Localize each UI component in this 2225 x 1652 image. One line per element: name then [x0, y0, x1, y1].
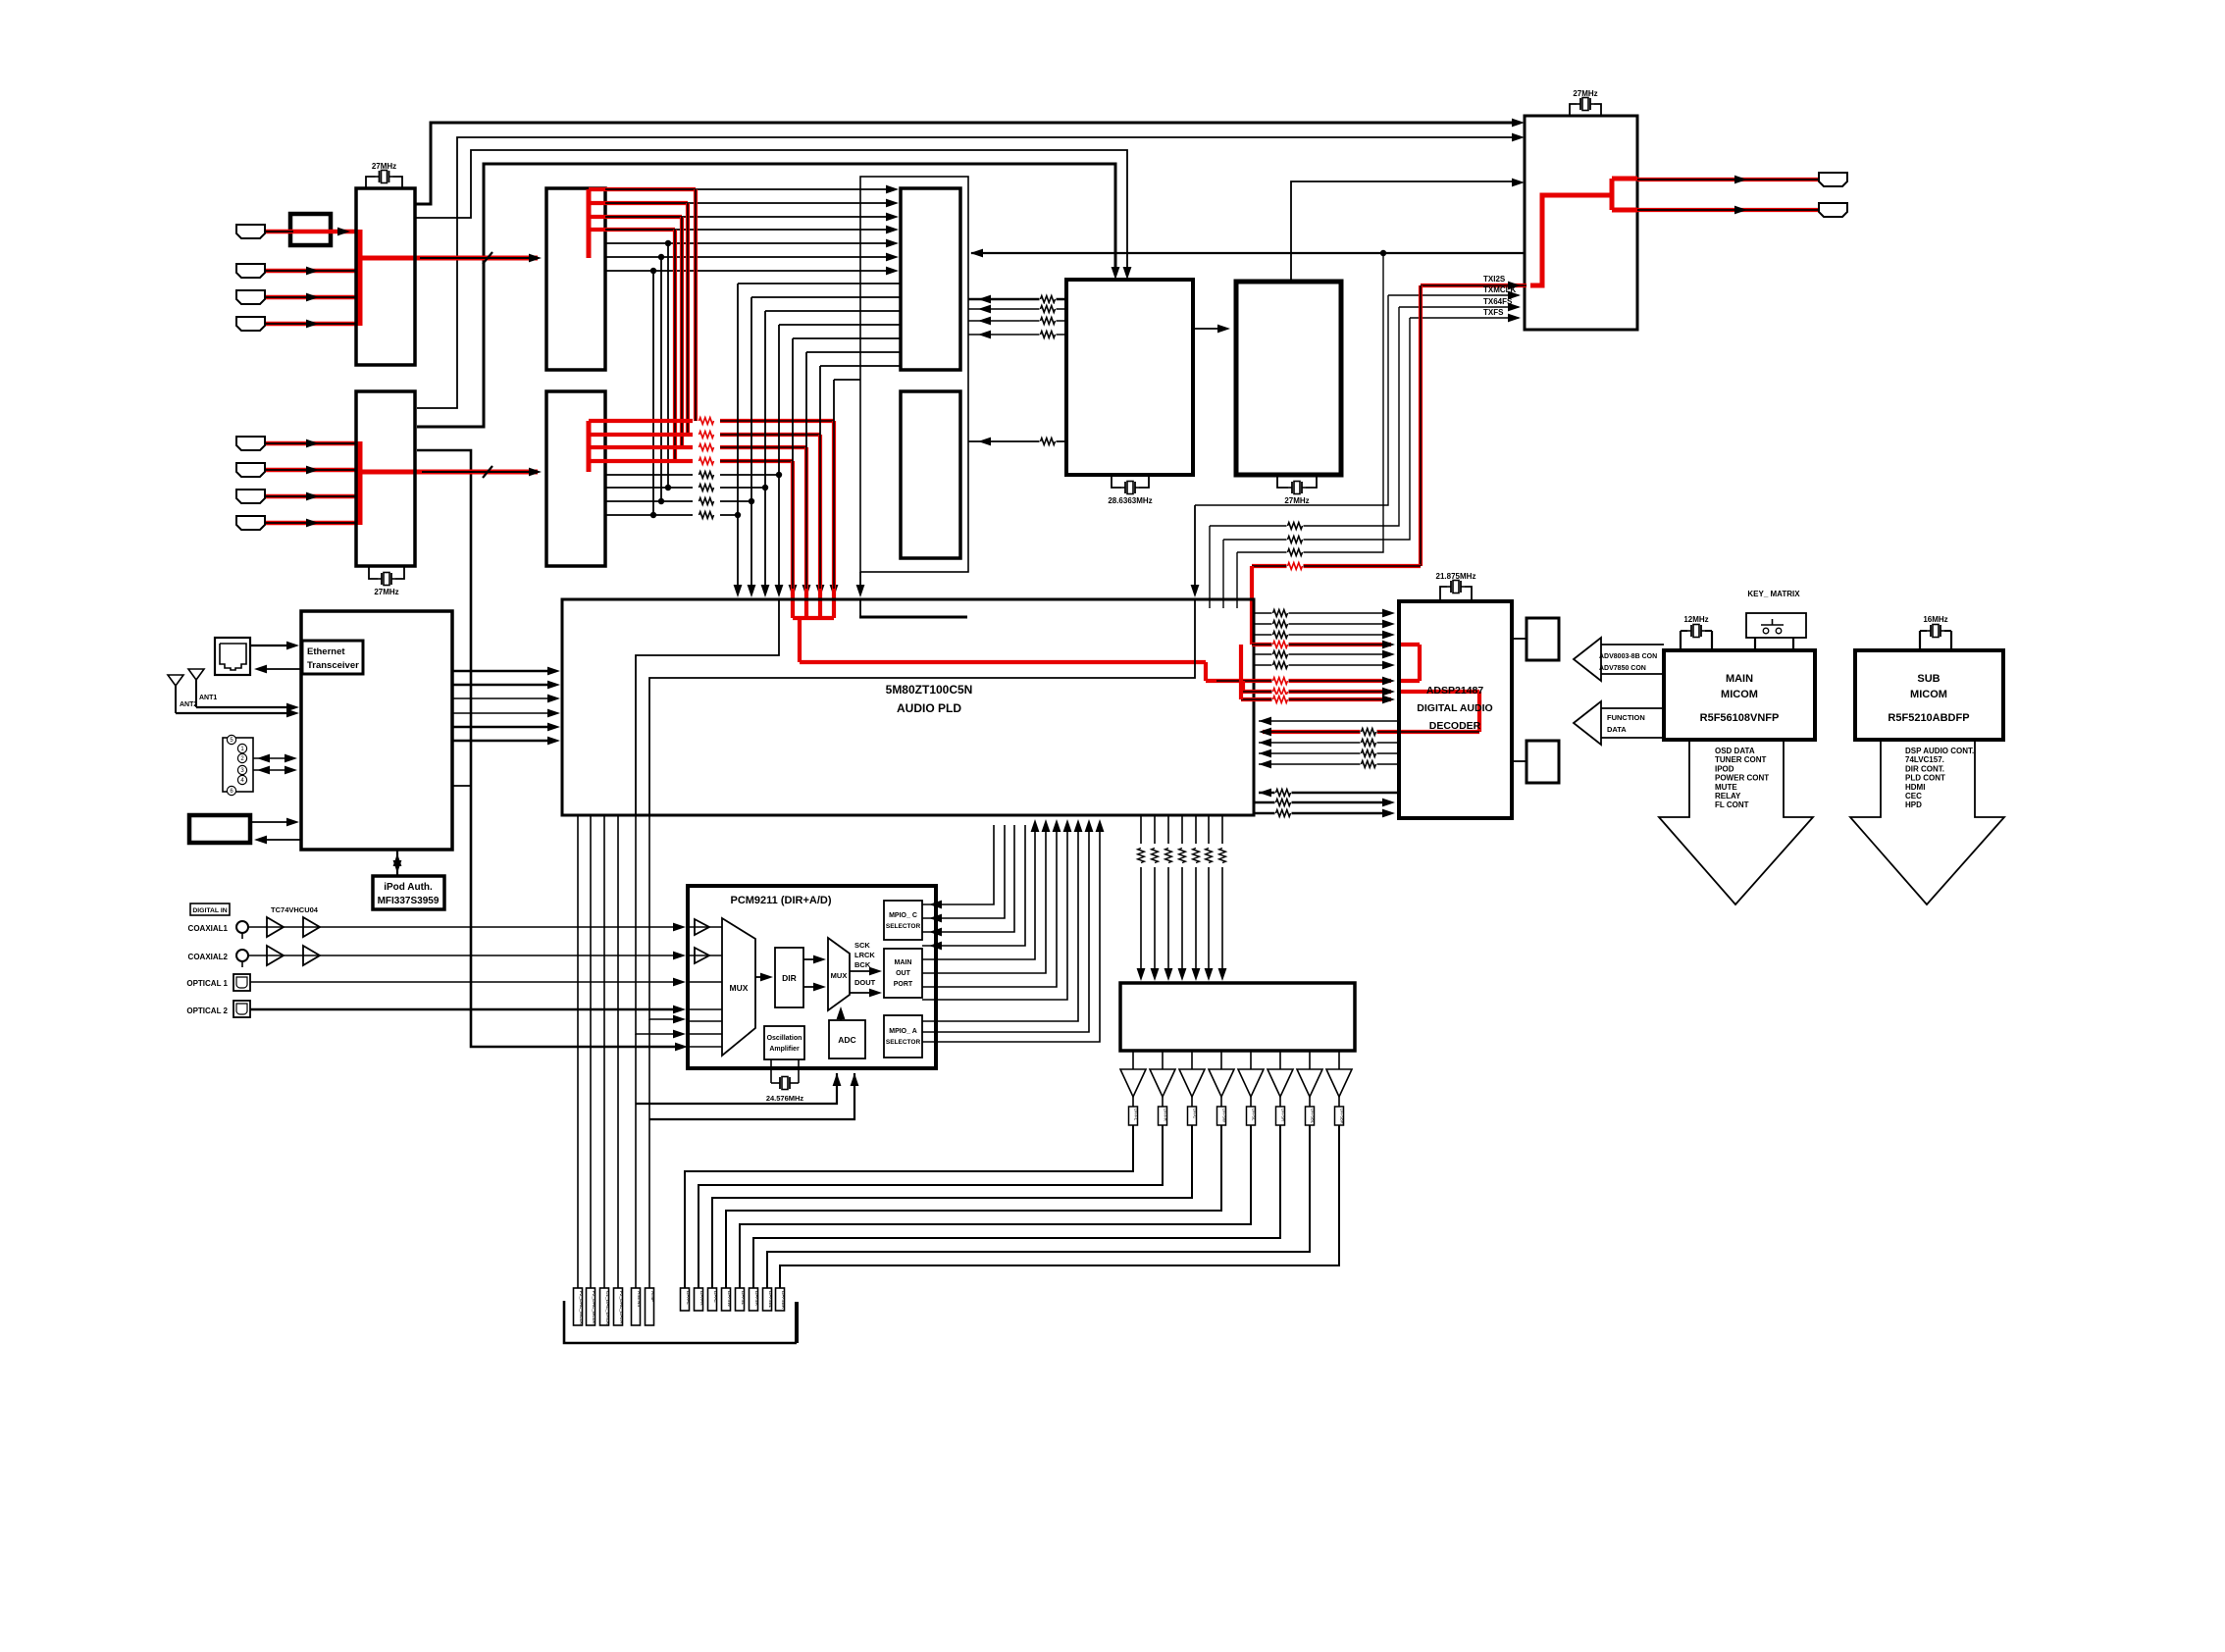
block small module bottom-left — [189, 815, 250, 843]
svg-text:MFI337S3959: MFI337S3959 — [378, 896, 440, 906]
svg-text:DA-SW: DA-SW — [726, 1291, 732, 1307]
svg-text:DA-C: DA-C — [1193, 1109, 1198, 1118]
wire PLD bottom feed to PCM9211 input (x660) — [649, 815, 682, 1019]
red input bus inside HDMI switch A — [358, 230, 363, 326]
svg-text:ADV7850 CON: ADV7850 CON — [1599, 665, 1646, 672]
arrowhead HDMI in 5 — [306, 439, 319, 448]
svg-text:28.6363MHz: 28.6363MHz — [1108, 496, 1152, 505]
wire RJ45 to network module (rx) — [257, 668, 301, 670]
connector HDMI IN 1 — [236, 225, 265, 238]
connector RJ45 — [215, 638, 250, 675]
block F — [1236, 282, 1341, 475]
wire TX64FS feeder row 536 — [1210, 307, 1399, 526]
wire DIR to MUX2 (2) — [803, 986, 822, 988]
svg-text:DA-SBR: DA-SBR — [1340, 1109, 1345, 1124]
connector OPTICAL 2 — [233, 1001, 250, 1017]
wire TX64FS into HDMI TX — [1399, 306, 1519, 308]
connector tag DA-FR — [695, 1288, 703, 1311]
buffer triangle 7 — [1297, 1069, 1322, 1097]
buffer triangle 1 — [1120, 1069, 1146, 1097]
wire G1 right to block E input 1 — [968, 298, 1066, 301]
svg-text:ANT1: ANT1 — [199, 695, 217, 701]
bus width slash on B-D red line — [483, 466, 492, 478]
buffer triangle 4 — [1209, 1069, 1234, 1097]
wire PLD to ADSP row 1 — [1255, 612, 1391, 614]
svg-text:DA-SBL: DA-SBL — [767, 1291, 773, 1309]
wire triangle 2 output to bottom connector tag — [699, 1125, 1163, 1288]
crystal 24.576MHz below oscillation amplifier — [770, 1059, 772, 1083]
connector tag ASENS — [632, 1288, 641, 1325]
svg-text:74LVC157.: 74LVC157. — [1905, 755, 1944, 764]
svg-text:DIR: DIR — [782, 973, 797, 983]
wire ADSP to PLD row 779 — [1259, 763, 1399, 765]
wire small module to network module (b) — [257, 839, 301, 841]
crystal 16MHz above SUB MICOM — [1919, 631, 1921, 650]
svg-text:DOUT: DOUT — [854, 978, 876, 987]
wire MUX2 to MAIN OUT PORT (dout) — [850, 992, 878, 994]
svg-text:DIR CONT.: DIR CONT. — [1905, 764, 1944, 773]
wire receiver C output 4 (red) to G1 and branch down — [589, 228, 675, 232]
wire HDMI input 5 to switch B (red highlighted) — [266, 441, 356, 446]
svg-text:12MHz: 12MHz — [1683, 615, 1708, 624]
arrowhead bus2 into HDMI TX — [1512, 133, 1525, 142]
arrowhead MPIO_C line 1 — [929, 901, 942, 909]
connector tag F2_DAC_DATA — [614, 1288, 623, 1325]
wire triangle 3 output to bottom connector tag — [712, 1125, 1192, 1288]
wire TXFS feeder row 550 — [1223, 318, 1410, 540]
resistor tag 2 — [1159, 1107, 1167, 1125]
svg-text:ASENS: ASENS — [636, 1291, 642, 1307]
svg-text:27MHz: 27MHz — [372, 162, 396, 171]
wire HDMI input 6 to switch B (red highlighted) — [266, 468, 356, 473]
svg-text:HPD: HPD — [1905, 800, 1922, 809]
arrowhead HDMI in 3 — [306, 293, 319, 302]
wire black row 3 from receiver D to staircase vertical — [605, 500, 693, 502]
small series box on HDMI input 1 — [290, 214, 331, 245]
wire buffer block to triangle 3 — [1191, 1051, 1193, 1069]
wire ADSP-PLD bottom row 808 — [1259, 792, 1399, 794]
svg-text:24.576MHz: 24.576MHz — [766, 1094, 804, 1103]
wire DIR to MUX2 (1) — [803, 958, 822, 960]
wire AUDIO PLD bottom to connector tag 3 — [603, 815, 605, 1288]
inner PLD bus segment below G cluster — [859, 599, 861, 617]
connector OPTICAL 1 — [233, 974, 250, 991]
resistor tag 6 — [1276, 1107, 1285, 1125]
svg-text:DA-SR: DA-SR — [1281, 1109, 1286, 1121]
wire bus4: HDMI SW B out to video decoder E top — [417, 164, 1115, 427]
wire staircase vertical 3 into PLD top — [764, 311, 766, 589]
hollow arrow FUNCTION DATA (to left) — [1574, 701, 1601, 745]
connector HDMI IN 3 — [236, 290, 265, 304]
red return row 746 into PLD — [1263, 730, 1479, 734]
wire: block B out down to PCM9211 (long vertical x=480) — [417, 450, 682, 1047]
wire black row 1 from receiver D to staircase vertical — [605, 474, 693, 476]
wire bus2: HDMI SW B out to HDMI TX — [417, 137, 1513, 408]
wire pin header to network module 2 — [253, 769, 293, 771]
resistor tag 1 — [1129, 1107, 1138, 1125]
wire bus6: long return bus from HDMI TX to receiver cluster G — [971, 252, 1525, 254]
connector tag F2_DAC_BCLK — [587, 1288, 595, 1325]
arrowhead bus4 into block E top — [1112, 267, 1120, 280]
wire receiver C output 3 (red) to G1 and branch down — [589, 215, 682, 219]
red input bus inside HDMI switch B — [358, 441, 363, 525]
block G outer (HDMI RX core) — [860, 177, 968, 572]
wire G1 right to block E input 2 — [968, 308, 1066, 310]
wire triangle 8 to resistor tag — [1338, 1097, 1340, 1107]
wire network module to AUDIO PLD 1 — [452, 670, 556, 672]
wire receiver C output 2 (red) to G1 and branch down — [589, 201, 688, 205]
box DIGITAL IN — [190, 903, 230, 915]
wire PCM9211 output 4 to AUDIO PLD bottom — [922, 825, 1025, 946]
svg-text:5M80ZT100C5N: 5M80ZT100C5N — [886, 683, 973, 697]
wire network module to AUDIO PLD 3 — [452, 697, 556, 699]
arrowhead MPIO_C line 2 — [929, 914, 942, 923]
block E video decoder — [1066, 280, 1193, 475]
wire TXMCLK into HDMI TX — [1388, 294, 1519, 296]
svg-text:ADC: ADC — [838, 1035, 855, 1045]
connector HDMI IN 6 — [236, 463, 265, 477]
block SUB MICOM — [1855, 650, 2003, 740]
wire tag column x662 down — [648, 1019, 650, 1288]
crystal 27MHz above switch A — [366, 177, 376, 188]
wire PCM9211 output 6 to AUDIO PLD bottom — [922, 825, 1046, 973]
red merge staircase below PLD top edge — [832, 589, 836, 618]
wires PCM9211 inputs to MUX1 — [688, 926, 722, 928]
svg-text:MPIO_ A: MPIO_ A — [889, 1028, 917, 1035]
wire AUDIO PLD bottom to buffer block input 3 — [1167, 815, 1169, 844]
block ADSP21487 decoder — [1399, 601, 1512, 818]
red loop row 713 — [1241, 697, 1391, 701]
wire PCM9211 output 2 to AUDIO PLD bottom — [922, 825, 1005, 918]
red loop row 705 — [1243, 690, 1391, 694]
wire AUDIO PLD bottom to buffer block input 7 — [1221, 815, 1223, 844]
svg-text:CL_DAC_LRCK: CL_DAC_LRCK — [604, 1291, 610, 1325]
buffer triangle 2 — [1150, 1069, 1175, 1097]
resistor tag 7 — [1306, 1107, 1315, 1125]
crystal 27MHz below block F — [1277, 475, 1288, 488]
wire HDMI input 3 to switch A (red highlighted) — [266, 295, 356, 300]
wire triangle 7 to resistor tag — [1309, 1097, 1311, 1107]
wire network module to iPod Auth (bidirectional) — [396, 850, 398, 876]
svg-text:Transceiver: Transceiver — [307, 660, 359, 671]
wire HDMI input 7 to switch B (red highlighted) — [266, 494, 356, 499]
component MUX2 trapezoid — [828, 938, 850, 1010]
wire receiver C output 6 to G1 with branch — [605, 256, 895, 258]
wire TXMCLK vertical feeder to PLD row — [1195, 295, 1388, 505]
svg-text:FL CONT: FL CONT — [1715, 800, 1749, 809]
wire staircase vertical 2 into PLD top — [750, 297, 752, 589]
wire ANT1 to network module — [196, 706, 295, 708]
wire network module to AUDIO PLD 5 — [452, 726, 556, 728]
wire black row 4 from receiver D to staircase vertical — [605, 514, 693, 516]
black internal PLD line from top x1218 to x662 column — [649, 599, 1195, 815]
wire triangle 5 to resistor tag — [1250, 1097, 1252, 1107]
svg-text:DECODER: DECODER — [1429, 720, 1481, 732]
wire ADSP to memory square 2 — [1512, 760, 1526, 762]
buffer triangle 6 — [1268, 1069, 1293, 1097]
wire triangle 2 to resistor tag — [1162, 1097, 1164, 1107]
bottom connector bracket — [564, 1301, 797, 1343]
block HDMI receiver C — [546, 188, 605, 370]
wire PLD to ADSP row 2 — [1255, 623, 1391, 625]
buffer triangle 5 — [1238, 1069, 1264, 1097]
antenna ANT2 — [168, 675, 183, 686]
connector HDMI IN 5 — [236, 437, 265, 450]
svg-text:DA-SBL: DA-SBL — [1311, 1109, 1316, 1124]
wire ADSP to memory square 1 — [1512, 638, 1526, 640]
arrowhead MPIO_C line 4 — [929, 942, 942, 951]
svg-text:DA-FL: DA-FL — [1134, 1109, 1139, 1121]
svg-text:MUTE: MUTE — [1715, 783, 1737, 792]
svg-text:AUDIO PLD: AUDIO PLD — [897, 701, 961, 715]
wire PLD to ADSP red row 657 (TX audio) — [1252, 643, 1391, 646]
wire MUX2 to MAIN OUT PORT (clock) — [850, 970, 878, 972]
wire network module to AUDIO PLD 6 — [452, 740, 556, 742]
svg-text:Ethernet: Ethernet — [307, 646, 345, 657]
arrowhead HDMI out 2 — [1734, 206, 1747, 215]
connector tag DA-SR — [750, 1288, 758, 1311]
wire AUDIO PLD bottom to buffer block input 2 — [1154, 815, 1156, 844]
hollow down arrow under SUB MICOM — [1850, 740, 2004, 904]
wire red row 3 from receiver D to PLD top — [589, 445, 693, 449]
svg-text:21.875MHz: 21.875MHz — [1436, 572, 1476, 581]
svg-text:DIGITAL AUDIO: DIGITAL AUDIO — [1417, 702, 1492, 714]
svg-text:iPod Auth.: iPod Auth. — [384, 882, 433, 893]
svg-text:FUNCTION: FUNCTION — [1607, 713, 1645, 722]
wire AUDIO PLD bottom to buffer block input 4 — [1181, 815, 1183, 844]
svg-text:OPTICAL 2: OPTICAL 2 — [186, 1007, 228, 1015]
connector COAXIAL2 jack — [236, 950, 248, 961]
wire triangle 5 output to bottom connector tag — [740, 1125, 1251, 1288]
svg-text:DIGITAL IN: DIGITAL IN — [192, 907, 227, 914]
wire buffer block to triangle 5 — [1250, 1051, 1252, 1069]
wire buffer block to triangle 7 — [1309, 1051, 1311, 1069]
wire MUX1 to DIR — [755, 976, 769, 978]
wire triangle 6 to resistor tag — [1279, 1097, 1281, 1107]
block iPod Auth MFI337S3959 — [373, 876, 444, 909]
red branch verticals from C outputs down to red rows (maroon) — [694, 189, 698, 421]
wire PCM9211 output 10 to AUDIO PLD bottom — [922, 825, 1089, 1032]
wire triangle 4 output to bottom connector tag — [726, 1125, 1221, 1288]
wire triangle 7 output to bottom connector tag — [767, 1125, 1310, 1288]
svg-text:TXFS: TXFS — [1483, 308, 1504, 317]
svg-text:F2_DAC_MCLK: F2_DAC_MCLK — [578, 1291, 584, 1325]
wire red row 4 from receiver D to PLD top — [589, 459, 693, 463]
wire triangle 6 output to bottom connector tag — [753, 1125, 1280, 1288]
connector tag DA-SL — [736, 1288, 745, 1311]
connector tag DA-SBL — [763, 1288, 772, 1311]
svg-text:IPOD: IPOD — [1715, 764, 1734, 773]
wire AUDIO PLD bottom to connector tag 1 — [577, 815, 579, 1288]
svg-text:R5F56108VNFP: R5F56108VNFP — [1700, 712, 1780, 724]
wire COAXIAL2 to PCM9211 — [248, 955, 682, 956]
svg-text:LRCK: LRCK — [854, 951, 875, 959]
wire PCM9211 output 11 to AUDIO PLD bottom — [922, 825, 1100, 1042]
svg-text:DA-SW: DA-SW — [1222, 1109, 1227, 1122]
wire red row 2 from receiver D to PLD top — [589, 433, 693, 437]
wire ADSP to PLD row 735 — [1259, 720, 1399, 722]
wire AUDIO PLD bottom to buffer block input 6 — [1208, 815, 1210, 844]
block PCM9211 (DIR+A/D) — [688, 886, 936, 1068]
svg-text:SCK: SCK — [854, 941, 870, 950]
buffer triangle 8 — [1326, 1069, 1352, 1097]
svg-text:DA-FR: DA-FR — [1164, 1109, 1168, 1121]
block MAIN MICOM — [1664, 650, 1815, 740]
block HDMI receiver D — [546, 391, 605, 566]
connector tag F2_DAC_MCLK — [574, 1288, 583, 1325]
wire ANT2 to network module — [176, 712, 295, 714]
svg-text:ANT2: ANT2 — [180, 701, 197, 708]
wire triangle 8 output to bottom connector tag — [780, 1125, 1339, 1288]
block MAIN OUT PORT — [884, 949, 922, 998]
svg-text:MPIO_ C: MPIO_ C — [889, 912, 917, 919]
wire red row 1 from receiver D to PLD top — [589, 419, 693, 423]
connector HDMI IN 7 — [236, 490, 265, 503]
wire PCM9211 output 5 to AUDIO PLD bottom — [922, 825, 1035, 959]
svg-text:KEY_ MATRIX: KEY_ MATRIX — [1747, 590, 1800, 598]
wire PLD to ADSP row 3 — [1255, 634, 1391, 636]
wire PCM9211 output 1 to AUDIO PLD bottom — [922, 825, 994, 904]
block memory square 1 — [1526, 618, 1559, 660]
wire TXFS into HDMI TX — [1410, 317, 1519, 319]
svg-text:OPTICAL 1: OPTICAL 1 — [186, 979, 228, 988]
red internal PLD route to ADSP — [800, 660, 1206, 664]
wire tag column x648 down — [635, 1034, 637, 1288]
wire triangle 1 to resistor tag — [1132, 1097, 1134, 1107]
connector HDMI OUT 1 — [1819, 173, 1847, 186]
wire PLD-ADSP bottom row 829 — [1255, 812, 1391, 814]
svg-text:DA-SL: DA-SL — [740, 1291, 746, 1305]
wire network module to AUDIO PLD 2 — [452, 684, 556, 686]
wire OPTICAL 1 to PCM9211 — [250, 981, 682, 983]
crystal 27MHz above HDMI TX — [1570, 104, 1577, 116]
block network module — [301, 611, 452, 850]
wire TXI2S red from PLD row to HDMI TX — [1421, 284, 1526, 287]
wire staircase vertical 4 into PLD top — [778, 325, 780, 589]
red loop vertical x1267 — [1241, 681, 1245, 692]
red bus inside receiver D — [587, 421, 592, 472]
wire ADSP to PLD row 768 — [1259, 752, 1399, 754]
arrowhead HDMI in 1 — [337, 228, 350, 236]
wire black row 2 from receiver D to staircase vertical — [605, 487, 693, 489]
crystal 12MHz above MAIN MICOM — [1680, 631, 1682, 650]
wire G1 right to block E input 3 — [968, 320, 1066, 322]
arrowhead HDMI in 7 — [306, 492, 319, 501]
svg-text:HDMI: HDMI — [1905, 783, 1925, 792]
wire HDMI input 8 to switch B (red highlighted) — [266, 521, 356, 526]
wire receiver C output 7 to G1 with branch — [605, 270, 895, 272]
connector HDMI IN 4 — [236, 317, 265, 331]
resistor tag 4 — [1217, 1107, 1226, 1125]
block output buffer array — [1120, 983, 1355, 1051]
buffer inside PCM9211 a — [695, 919, 709, 935]
arrowhead HDMI out 1 — [1734, 176, 1747, 184]
wire AUDIO PLD bottom to buffer block input 1 — [1140, 815, 1142, 844]
block MPIO_A SELECTOR — [884, 1015, 922, 1058]
wire staircase vertical 6 into PLD top — [805, 352, 807, 589]
arrowhead bus1 into HDMI TX — [1512, 119, 1525, 128]
block ADC — [829, 1020, 865, 1058]
connector tag AINP — [646, 1288, 654, 1325]
svg-text:27MHz: 27MHz — [1573, 89, 1597, 98]
connector tag CL_DAC_LRCK — [600, 1288, 609, 1325]
arrowhead bus6 into block G1 right edge — [970, 249, 983, 258]
buffer U1d — [303, 946, 320, 965]
wire PCM9211 output 8 to AUDIO PLD bottom — [922, 825, 1067, 1000]
wire RJ45 to network module (tx) — [250, 645, 295, 646]
wire buffer block to triangle 6 — [1279, 1051, 1281, 1069]
svg-text:MAIN: MAIN — [895, 959, 912, 966]
svg-text:BCK: BCK — [854, 960, 871, 969]
block MPIO_C SELECTOR — [884, 901, 922, 940]
wire buffer block to triangle 8 — [1338, 1051, 1340, 1069]
block G1 — [901, 188, 960, 370]
svg-text:TUNER CONT: TUNER CONT — [1715, 755, 1767, 764]
red vertical to PLD internal route — [798, 618, 802, 662]
svg-text:DA-C: DA-C — [712, 1291, 718, 1303]
svg-text:TXI2S: TXI2S — [1483, 275, 1506, 284]
svg-text:COAXIAL2: COAXIAL2 — [188, 953, 229, 961]
svg-text:DA-SBR: DA-SBR — [780, 1291, 786, 1310]
resistor tag 3 — [1188, 1107, 1197, 1125]
connector tag DA-FL — [681, 1288, 690, 1311]
wire network module lower to PCM9211 feed — [452, 785, 471, 787]
svg-text:F2_DAC_BCLK: F2_DAC_BCLK — [591, 1291, 596, 1324]
bus width slash on A-C red line — [483, 252, 492, 264]
red loop vertical x1508 inside ADSP — [1477, 692, 1481, 732]
hollow arrow ADV8003/ADV7850 CON (to left) — [1574, 638, 1601, 681]
wire receiver C output 5 to G1 with branch — [605, 242, 895, 244]
wire bus5: block F top to HDMI TX — [1291, 181, 1513, 282]
svg-text:ADV8003-8B CON: ADV8003-8B CON — [1599, 653, 1657, 660]
wire HDMI input 1 to switch A (red highlighted) — [266, 230, 356, 234]
wire tag column to ADC input 2 — [649, 1073, 854, 1119]
svg-text:SELECTOR: SELECTOR — [886, 923, 921, 930]
svg-text:16MHz: 16MHz — [1923, 615, 1947, 624]
block HDMI switch B — [356, 391, 415, 566]
svg-text:MICOM: MICOM — [1910, 689, 1947, 700]
resistor tag 8 — [1335, 1107, 1344, 1125]
red loop row 694 — [1206, 679, 1391, 683]
connector tag DA-SBR — [776, 1288, 785, 1311]
crystal 21.875MHz above ADSP — [1440, 587, 1447, 601]
svg-text:DATA: DATA — [1607, 725, 1627, 734]
wire buffer block to triangle 1 — [1132, 1051, 1134, 1069]
wire ADSP to PLD row 757 — [1259, 742, 1399, 744]
svg-text:27MHz: 27MHz — [374, 588, 398, 596]
connector COAXIAL1 jack — [236, 921, 248, 933]
svg-text:OSD DATA: OSD DATA — [1715, 747, 1755, 755]
arrowhead HDMI in 8 — [306, 519, 319, 528]
wire G1 right to block E input 4 — [968, 334, 1066, 336]
block HDMI switch A — [356, 188, 415, 365]
svg-text:MUX: MUX — [831, 971, 848, 980]
svg-text:DA-FL: DA-FL — [685, 1291, 691, 1305]
block G2 — [901, 391, 960, 558]
red main path HDMI switch A to receiver C — [360, 256, 538, 261]
resistor tag 5 — [1247, 1107, 1256, 1125]
wire AUDIO PLD bottom to buffer block input 5 — [1195, 815, 1197, 844]
svg-text:DA-SL: DA-SL — [1252, 1109, 1257, 1121]
svg-text:PCM9211 (DIR+A/D): PCM9211 (DIR+A/D) — [730, 895, 831, 906]
wire KEY_MATRIX legs to MAIN MICOM — [1754, 638, 1756, 650]
connector HDMI OUT 2 — [1819, 203, 1847, 217]
svg-text:CEC: CEC — [1905, 792, 1922, 800]
wire bus1: HDMI SW A out to HDMI TX (top bus) — [415, 123, 1513, 204]
wire staircase vertical 7 into PLD top — [819, 366, 821, 589]
svg-text:MUX: MUX — [730, 983, 749, 993]
wire bus3: HDMI SW A out to video decoder E top — [415, 150, 1127, 268]
